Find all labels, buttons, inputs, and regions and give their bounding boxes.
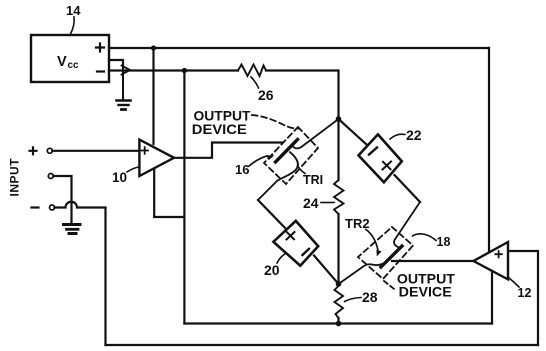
svg-text:DEVICE: DEVICE bbox=[399, 284, 452, 300]
input terminal - bbox=[50, 205, 55, 210]
input terminal + bbox=[47, 148, 52, 153]
plus mark in 22 bbox=[383, 162, 392, 170]
svg-text:12: 12 bbox=[518, 286, 532, 300]
arrowhead on Vcc- wire bbox=[122, 66, 131, 75]
supply box Vcc bbox=[31, 35, 109, 82]
svg-text:16: 16 bbox=[235, 162, 249, 177]
wire mid terminal to ground bbox=[53, 176, 71, 222]
node at (153,48) bbox=[151, 45, 156, 50]
svg-text:TRI: TRI bbox=[303, 173, 323, 187]
wire top rail down right side to U12 bbox=[488, 48, 490, 252]
leader line for 10 bbox=[127, 167, 139, 172]
wire from R26 to bridge top bbox=[266, 71, 339, 120]
minus mark input bbox=[32, 206, 39, 208]
svg-text:cc: cc bbox=[68, 60, 80, 71]
svg-text:24: 24 bbox=[303, 195, 319, 211]
wire U12 bottom power stub bbox=[491, 272, 493, 324]
ground (input) bbox=[64, 225, 81, 234]
wire inner bottom rail bbox=[184, 322, 492, 324]
wire input- with hop to outer bottom bbox=[55, 202, 106, 345]
arrowhead of TR2 leader bbox=[376, 250, 381, 257]
wire Vcc- horizontal rail bbox=[109, 69, 238, 71]
leader line for 20 bbox=[277, 254, 286, 264]
wire Vcc+ down to op-amp U10 top bbox=[152, 48, 154, 144]
node dot at (184,70) bbox=[182, 68, 187, 73]
wire outer right side up to U12 input bbox=[508, 251, 538, 345]
minus terminal mark of Vcc bbox=[97, 70, 104, 72]
resistor R28 bbox=[335, 286, 344, 318]
node at bottom rail bbox=[336, 321, 342, 327]
leader line for 18 bbox=[413, 234, 437, 241]
svg-text:INPUT: INPUT bbox=[8, 158, 22, 197]
leader line for 28 bbox=[345, 298, 362, 302]
resistor R26 bbox=[238, 65, 266, 77]
plus terminal mark of Vcc bbox=[96, 44, 104, 52]
output device label (bottom) bbox=[397, 271, 455, 300]
dashed leader output device top bbox=[252, 115, 299, 129]
cell 22 box bbox=[359, 134, 402, 182]
minus mark in 22 bbox=[369, 148, 377, 155]
wire U12 output to TR2 bbox=[392, 260, 474, 262]
op-amp U10 bbox=[139, 140, 174, 176]
svg-text:10: 10 bbox=[112, 170, 127, 185]
input terminal mid bbox=[48, 174, 53, 179]
svg-text:28: 28 bbox=[362, 289, 378, 305]
bridge bottom node bbox=[336, 281, 342, 287]
op-amp U12 bbox=[474, 242, 509, 279]
wire cell 20 to bottom node bbox=[314, 256, 339, 285]
wire bridge mid vertical upper bbox=[337, 119, 339, 180]
leader line for 26 bbox=[251, 77, 259, 88]
dashed leader output device bottom bbox=[384, 281, 396, 291]
leader line for TR2 with arrow bbox=[366, 230, 378, 250]
wire R28 to bottom rail bbox=[337, 318, 339, 324]
cell 20 box bbox=[273, 221, 318, 266]
svg-text:V: V bbox=[57, 54, 67, 70]
label Vcc bbox=[57, 54, 79, 71]
wire input+ to U10 bbox=[52, 150, 139, 152]
svg-text:14: 14 bbox=[66, 3, 81, 18]
transistor TR2 dashed enclosure bbox=[358, 227, 413, 279]
arrowhead of 16 leader bbox=[267, 155, 275, 160]
bridge top node bbox=[336, 116, 342, 122]
wire U10 bottom power stub bbox=[154, 169, 184, 217]
svg-text:26: 26 bbox=[258, 87, 274, 103]
svg-text:20: 20 bbox=[264, 262, 280, 278]
wire arm left node to cell 20 bbox=[258, 200, 287, 230]
svg-text:18: 18 bbox=[437, 235, 451, 249]
leader line for 14 bbox=[71, 17, 75, 34]
wire cell 22 to right node bbox=[395, 175, 421, 202]
transistor TR1 dashed enclosure bbox=[264, 127, 318, 184]
leader line for 24 bbox=[321, 202, 334, 204]
wire outer bottom rail bbox=[106, 344, 539, 346]
wire arm top node to cell 22 bbox=[339, 119, 368, 145]
wire U10 output bbox=[174, 143, 282, 158]
minus mark in 20 bbox=[303, 249, 310, 255]
leader line for 16 with arrow bbox=[249, 156, 268, 166]
plus mark in 20 bbox=[287, 232, 295, 240]
output device label (top) bbox=[192, 108, 251, 138]
plus mark in U10 bbox=[142, 147, 149, 154]
transistor TR1 bbox=[258, 119, 339, 200]
leader line for TR1 bbox=[298, 166, 306, 174]
wire bridge mid vertical lower bbox=[337, 214, 339, 284]
wire Vcc- stub bbox=[109, 60, 123, 70]
svg-text:DEVICE: DEVICE bbox=[192, 121, 247, 137]
ground (near Vcc) bbox=[117, 70, 131, 110]
svg-text:22: 22 bbox=[406, 127, 422, 143]
resistor R24 bbox=[334, 180, 344, 214]
leader line for 12 bbox=[509, 278, 520, 288]
leader line for 22 bbox=[390, 134, 405, 139]
transistor TR2 bbox=[339, 202, 421, 284]
wire Vcc+ top rail bbox=[109, 47, 489, 49]
wire Vcc- rail down left side of inner loop bbox=[183, 71, 185, 324]
plus mark in U12 bbox=[495, 251, 501, 257]
plus mark input bbox=[30, 147, 37, 154]
